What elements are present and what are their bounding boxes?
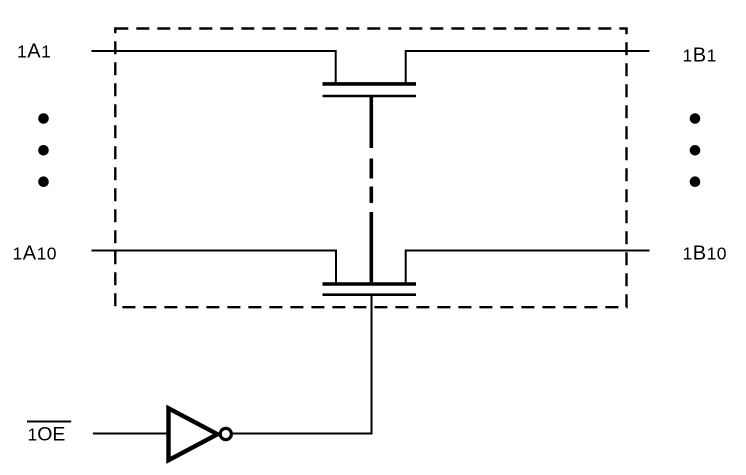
svg-text:1A10: 1A10 [13,243,58,265]
dashed gate bus between Q1 and Q10 gates (dash 1) [369,159,373,179]
pass transistor Q1 gate bar [323,95,417,98]
wire 1OE to inverter U1 input [93,433,169,435]
pass transistor Q10 gate bar [323,293,417,296]
ellipsis dots right column [690,113,701,187]
wire inverter U1 output to gate bus [233,433,373,435]
wire gate bus to Q10 (solid lower segment) [369,212,373,282]
wire 1A1 to Q1 source [92,51,336,84]
wire Q10 drain to 1B10 [406,251,650,285]
inverter U1 bubble [220,428,231,439]
wire Q10 gate to inverter output [371,295,373,435]
wire Q1 gate lead (solid upper segment) [369,96,373,148]
pass transistor Q1 channel bar [323,82,417,86]
ellipsis dots left column [38,113,49,187]
inverter U1 triangle [169,408,218,460]
svg-text:1OE: 1OE [28,424,66,446]
dashed gate bus between Q1 and Q10 gates (dash 2) [369,187,373,204]
svg-text:1B1: 1B1 [683,45,717,67]
dashed enclosure (bus-switch cell outline) [115,29,626,308]
wire 1A10 to Q10 source [92,251,337,285]
pass transistor Q10 channel bar [323,282,417,286]
svg-text:1B10: 1B10 [683,243,728,265]
svg-text:1A1: 1A1 [17,41,51,63]
port label 1OE (active low overbar) [27,422,71,446]
wire Q1 drain to 1B1 [406,51,650,84]
